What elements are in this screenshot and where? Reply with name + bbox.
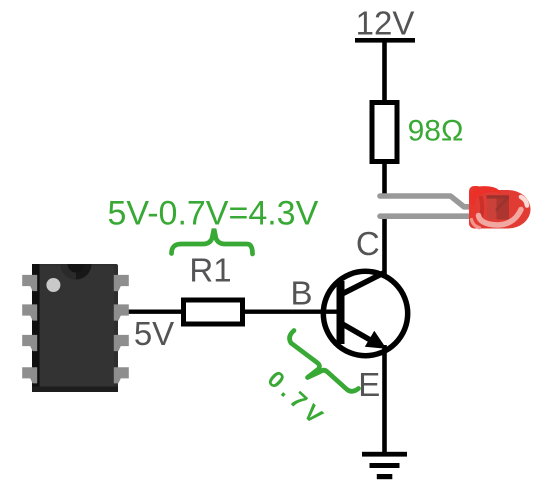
wire IC to base — [126, 310, 338, 314]
svg-text:C: C — [356, 225, 380, 262]
LED top lead (anode) — [380, 196, 482, 207]
svg-text:5V: 5V — [134, 315, 174, 352]
anvil diagonal — [496, 198, 508, 211]
body — [32, 264, 118, 392]
flange shadow crescent — [481, 196, 483, 220]
circle — [323, 271, 407, 355]
power rail 12V bar — [355, 38, 415, 43]
anvil medium — [487, 196, 509, 220]
IC U1 — [22, 264, 129, 392]
flange — [469, 186, 482, 229]
wire emitter to ground — [382, 345, 387, 454]
top right highlight — [521, 197, 527, 206]
brace 0.7V rotated — [290, 331, 359, 392]
notch — [61, 264, 92, 279]
resistor R1 — [184, 300, 243, 324]
LED D1 body — [469, 186, 531, 229]
LED bottom lead (cathode) — [380, 213, 485, 219]
pins right — [114, 275, 129, 291]
labels gray — [134, 5, 415, 404]
pins left — [22, 275, 129, 384]
base bar — [337, 281, 345, 344]
anvil top bar — [487, 195, 510, 198]
ground — [362, 452, 407, 479]
wire rail to resistor — [382, 40, 387, 103]
wire LED bottom lead to collector — [382, 214, 387, 276]
emitter line — [339, 322, 372, 341]
svg-text:R1: R1 — [189, 252, 231, 289]
transistor Q1 — [323, 271, 407, 355]
svg-text:B: B — [290, 275, 312, 312]
svg-text:E: E — [358, 366, 380, 403]
bottom highlight crescent — [479, 210, 522, 226]
pin1 dot — [46, 278, 60, 292]
svg-text:12V: 12V — [356, 5, 415, 42]
green annotations — [108, 115, 464, 433]
wire resistor to LED top lead — [382, 161, 387, 199]
emitter arrow — [365, 331, 387, 349]
bright top-left dome — [470, 186, 500, 206]
body — [476, 190, 531, 229]
anvil dark column — [497, 198, 510, 220]
brace over R1 — [172, 229, 253, 254]
svg-text:98Ω: 98Ω — [408, 115, 464, 148]
bottom-left flange light — [472, 220, 480, 228]
resistor 98ohm — [372, 103, 397, 162]
collector line — [339, 273, 385, 296]
svg-text:5V-0.7V=4.3V: 5V-0.7V=4.3V — [108, 195, 319, 233]
